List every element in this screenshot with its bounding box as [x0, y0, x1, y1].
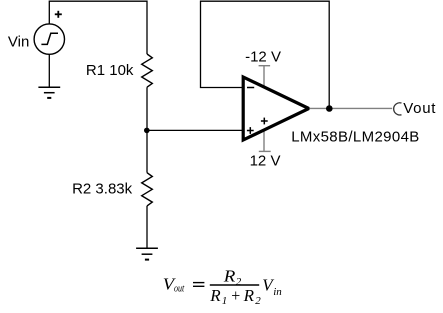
svg-text:in: in: [273, 286, 282, 298]
resistor R1: [142, 54, 153, 87]
svg-text:R: R: [223, 267, 236, 286]
wire node to op-amp + input: [147, 129, 244, 131]
svg-text:LMx58B/LM2904B: LMx58B/LM2904B: [291, 129, 419, 146]
svg-text:R: R: [243, 286, 255, 305]
formula fraction bar: [210, 284, 259, 286]
op-amp V+ power pin top (gray): [259, 66, 271, 87]
resistor R2: [142, 173, 153, 206]
source V1 circle: [34, 24, 64, 54]
op-amp plus mark (input): [247, 127, 254, 134]
svg-text:out: out: [174, 283, 185, 295]
op-amp V- power pin bottom (gray): [259, 130, 271, 152]
wire R2 to ground: [146, 206, 148, 248]
svg-text:R1 10k: R1 10k: [86, 62, 134, 79]
ground (R2): [136, 248, 158, 259]
svg-text:12 V: 12 V: [250, 152, 281, 169]
op-amp minus mark: [247, 87, 254, 89]
feedback wire loop output to inverting input: [201, 1, 330, 108]
wire source to ground: [48, 54, 50, 87]
svg-text:+: +: [231, 286, 240, 305]
svg-text:1: 1: [222, 295, 228, 307]
ground (source): [38, 87, 60, 98]
wire top from Vin to R1: [49, 1, 147, 54]
Vout port terminal arc: [394, 103, 402, 115]
svg-text:Vout: Vout: [403, 100, 436, 117]
svg-text:Vin: Vin: [8, 33, 29, 50]
svg-text:2: 2: [255, 295, 261, 307]
op-amp output pin (gray): [307, 107, 392, 109]
source plus sign: [55, 11, 62, 18]
svg-text:-12 V: -12 V: [245, 48, 281, 65]
op-amp U1 triangle: [243, 77, 309, 140]
node junction dot: [144, 128, 150, 134]
junction dot at output: [326, 105, 333, 112]
wire R1 to node to R2: [146, 87, 148, 173]
svg-text:R2 3.83k: R2 3.83k: [72, 181, 133, 198]
svg-text:R: R: [209, 286, 221, 305]
formula Vout = R2/(R1+R2) Vin: [163, 267, 282, 308]
source waveform: [41, 33, 58, 44]
op-amp plus mark (offset): [261, 118, 268, 125]
